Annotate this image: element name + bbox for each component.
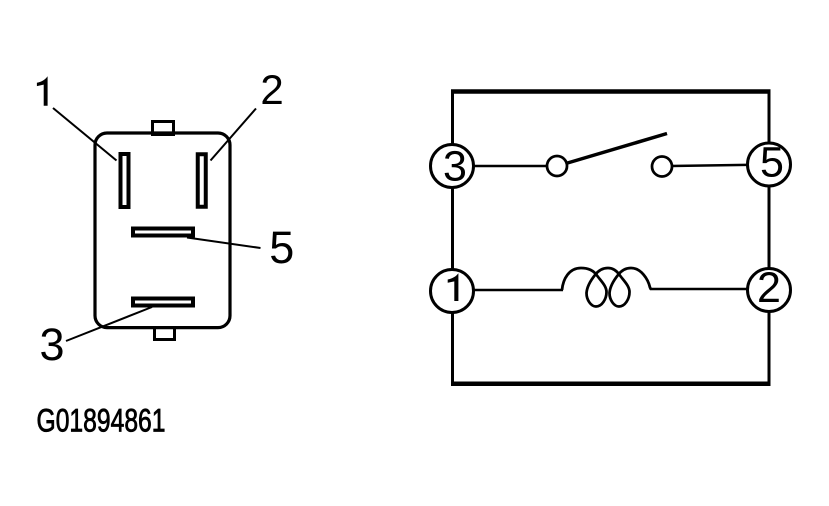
wire coil to terminal 2 — [650, 288, 769, 291]
schematic box top edge (heavier) — [451, 89, 771, 94]
switch blade — [568, 134, 668, 164]
pin 3 slot — [133, 299, 193, 306]
pin 1 slot — [121, 154, 129, 207]
bottom locating tab — [155, 328, 175, 340]
svg-text:3: 3 — [443, 143, 467, 191]
terminal 3 circle — [431, 145, 474, 188]
svg-text:3: 3 — [39, 319, 64, 370]
schematic outer box — [453, 92, 770, 384]
svg-text:5: 5 — [269, 222, 294, 273]
svg-text:2: 2 — [260, 66, 283, 113]
svg-text:5: 5 — [760, 139, 784, 187]
leader line to pin 3 — [66, 307, 152, 341]
schematic box bottom edge (heavier) — [451, 382, 771, 387]
leader line to pin 2 — [211, 109, 257, 161]
terminal 1 circle — [431, 270, 474, 313]
terminal 1 digit — [448, 273, 459, 301]
terminal 5 circle — [748, 143, 791, 186]
fixed contact circle — [547, 156, 567, 176]
wire terminal 3 to fixed contact — [452, 165, 548, 168]
pin 5 slot — [133, 229, 193, 236]
terminal 2 circle — [748, 269, 791, 312]
relay coil — [562, 268, 651, 307]
top locating tab — [153, 122, 174, 135]
leader line to pin 5 — [187, 238, 261, 249]
leader line to pin 1 — [53, 108, 117, 161]
svg-text:G01894861: G01894861 — [37, 403, 166, 439]
wire movable contact to terminal 5 — [671, 165, 769, 167]
pin 2 slot — [198, 154, 206, 207]
label pin 1 — [37, 76, 48, 106]
relay connector body (pin-end view) — [95, 133, 230, 328]
wire terminal 1 to coil — [452, 289, 563, 292]
movable contact circle — [652, 157, 672, 177]
svg-text:2: 2 — [757, 264, 781, 312]
